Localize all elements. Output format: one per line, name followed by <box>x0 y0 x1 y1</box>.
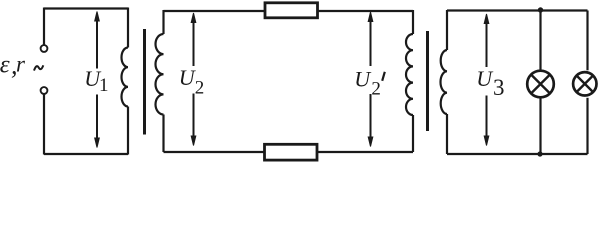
svg-text:U: U <box>354 67 372 92</box>
svg-text:ε: ε <box>0 51 10 78</box>
svg-text:1: 1 <box>99 75 109 96</box>
svg-text:2: 2 <box>371 79 381 100</box>
svg-text:3: 3 <box>493 75 505 100</box>
svg-text:2: 2 <box>195 78 205 99</box>
svg-text:r: r <box>16 52 26 77</box>
svg-text:U: U <box>476 66 494 91</box>
